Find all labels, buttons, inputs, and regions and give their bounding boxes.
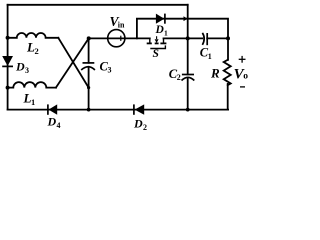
resistor R zigzag — [224, 60, 231, 85]
wire middle horizontal left — [89, 37, 150, 39]
junction node B top of C3 — [87, 36, 91, 40]
junction left rail / L1 — [6, 86, 10, 90]
Vin plus tick — [120, 36, 122, 41]
svg-text:2: 2 — [143, 123, 147, 131]
switch S arrow — [155, 39, 159, 43]
svg-text:in: in — [118, 20, 125, 29]
svg-text:3: 3 — [108, 66, 112, 75]
svg-text:4: 4 — [57, 121, 61, 130]
svg-text:o: o — [243, 72, 248, 82]
junction C3 leg / bottom rail — [87, 108, 91, 112]
wire middle horizontal right of switch — [164, 37, 203, 39]
svg-text:1: 1 — [31, 97, 35, 107]
svg-text:2: 2 — [177, 73, 181, 82]
svg-text:2: 2 — [35, 46, 39, 56]
inductor L2 winding — [8, 33, 59, 38]
junction diagonal / C3 leg — [87, 86, 90, 89]
svg-text:S: S — [153, 48, 159, 60]
svg-text:D: D — [47, 115, 57, 129]
svg-text:1: 1 — [164, 28, 168, 37]
wire C3 vertical upper — [88, 38, 90, 62]
output plus sign — [239, 56, 246, 63]
inductor L1 winding — [8, 82, 56, 88]
wire output right vertical upper — [227, 38, 229, 59]
wire output right vertical lower — [227, 84, 229, 110]
diode D4 — [48, 104, 57, 114]
capacitor C2 plates — [182, 75, 195, 81]
voltage source Vin circle — [108, 30, 125, 47]
wire diagonal from L2 down — [58, 38, 88, 88]
wire bottom rail — [8, 109, 229, 111]
svg-text:D: D — [155, 24, 165, 36]
wire diagonal from L1 up — [56, 38, 89, 87]
wire C3 vertical lower — [88, 67, 90, 110]
svg-text:D: D — [133, 117, 143, 131]
capacitor C1 plates — [202, 33, 207, 45]
wire left rail — [7, 5, 9, 110]
junction C2 leg / bottom rail — [186, 108, 190, 112]
svg-text:1: 1 — [208, 52, 212, 61]
wire D1 branch — [137, 19, 228, 39]
wire C1 to output node — [207, 37, 228, 39]
junction node A / switch wire — [186, 36, 190, 40]
wire node-A vertical lower — [187, 78, 189, 109]
junction left rail / L2 — [6, 36, 10, 40]
diode D1 — [156, 14, 165, 24]
junction output node / R top — [226, 36, 230, 40]
diode D2 — [134, 104, 144, 114]
wire node-A vertical upper — [187, 5, 189, 75]
svg-text:D: D — [15, 60, 25, 74]
svg-text:3: 3 — [25, 66, 29, 75]
diode D3 — [2, 56, 13, 66]
capacitor C3 plates — [81, 63, 95, 70]
output minus sign — [240, 86, 245, 88]
switch S — [147, 36, 167, 48]
current arrow into node A — [184, 16, 188, 21]
svg-text:R: R — [210, 65, 220, 80]
wire top rail — [8, 4, 188, 6]
